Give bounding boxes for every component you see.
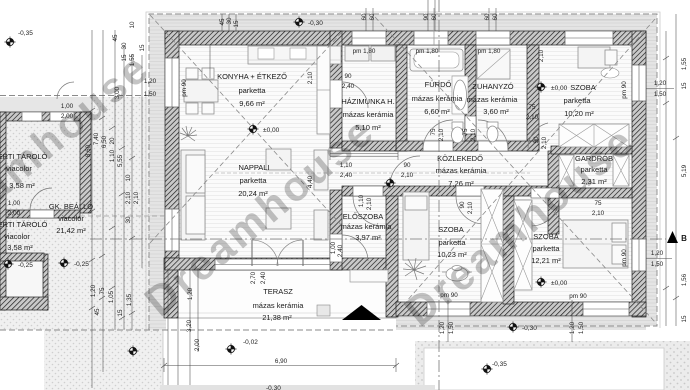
svg-text:3,20: 3,20 [186, 319, 193, 332]
left band [149, 14, 166, 330]
svg-text:10: 10 [125, 174, 132, 182]
svg-text:pm 90: pm 90 [621, 249, 628, 267]
wardrobe gardrób left [559, 155, 574, 186]
svg-text:2,40: 2,40 [337, 244, 344, 257]
svg-text:SZOBA: SZOBA [438, 225, 463, 234]
roof outline dashed [149, 14, 657, 330]
svg-text:2,40: 2,40 [342, 83, 355, 90]
svg-text:75: 75 [462, 128, 469, 136]
marker ±0,00 konyha [248, 124, 259, 135]
svg-text:12,21 m²: 12,21 m² [531, 256, 561, 265]
marker -0,25 annex left [3, 259, 14, 270]
házimunka machines [345, 46, 369, 61]
door szoba-bl gap [456, 186, 484, 196]
svg-text:6,60 m²: 6,60 m² [424, 107, 450, 116]
svg-text:60: 60 [492, 13, 499, 21]
svg-text:1,10: 1,10 [109, 149, 116, 162]
svg-text:1,00: 1,00 [330, 241, 337, 254]
lamp szoba-tr [601, 68, 619, 78]
svg-text:15: 15 [681, 315, 688, 323]
wardrobe szoba-tr [559, 124, 629, 147]
bathtub [410, 49, 463, 71]
svg-text:mázas kerámia: mázas kerámia [467, 95, 519, 104]
door szoba-br arc [531, 198, 559, 226]
marker dim strip bottom [128, 346, 139, 357]
door fürdő-zuhanyzó wall gap [465, 116, 476, 134]
wall corridor north [396, 141, 539, 151]
svg-text:KÖZLEKEDŐ: KÖZLEKEDŐ [437, 154, 483, 163]
svg-text:1,20: 1,20 [654, 80, 667, 87]
svg-text:1,50: 1,50 [654, 91, 667, 98]
wall left [165, 31, 179, 268]
svg-text:10,20 m²: 10,20 m² [564, 109, 594, 118]
svg-text:6,90: 6,90 [275, 358, 288, 365]
wall corridor south [342, 186, 548, 196]
marker előszoba [385, 178, 396, 189]
bed szoba-tr [578, 47, 610, 68]
svg-text:mázas kerámia: mázas kerámia [436, 166, 488, 175]
svg-text:7,40: 7,40 [93, 132, 100, 145]
door fürdő gap [423, 141, 453, 151]
solid thin line at section top [433, 8, 435, 45]
wall right [632, 31, 646, 317]
wardrobe between bottom szobas [481, 189, 503, 302]
svg-text:21,38 m²: 21,38 m² [262, 313, 292, 322]
svg-text:60: 60 [431, 13, 438, 21]
svg-text:1,20: 1,20 [651, 250, 664, 257]
svg-text:±0,00: ±0,00 [551, 85, 568, 92]
svg-text:15: 15 [139, 44, 146, 52]
svg-text:viacolor: viacolor [58, 214, 84, 223]
svg-text:2,10: 2,10 [526, 114, 539, 121]
tv bench [314, 150, 328, 190]
bed szoba-bl [403, 192, 429, 260]
svg-text:90: 90 [533, 136, 540, 144]
wall gardrób north [551, 146, 632, 154]
svg-text:2,10: 2,10 [592, 210, 605, 217]
top dim lines over windows [365, 8, 367, 31]
washbasin fürdő [452, 76, 468, 114]
svg-text:-0,25: -0,25 [74, 261, 89, 268]
door fürdő arc [423, 120, 453, 150]
wall szoba-bl west [386, 186, 398, 317]
annex lower box right wall [43, 254, 48, 310]
window left wall lower [165, 209, 179, 251]
svg-text:pm 90: pm 90 [181, 79, 188, 97]
svg-text:GK. BEÁLLÓ: GK. BEÁLLÓ [49, 202, 93, 211]
window bottom szoba-bl [427, 302, 470, 316]
window top házimunka [352, 31, 386, 45]
door passage-közlekedő arc [390, 156, 420, 186]
svg-text:2,10: 2,10 [133, 191, 140, 204]
svg-text:pm 1,80: pm 1,80 [416, 48, 439, 55]
window top zuhanyzó [476, 31, 510, 45]
svg-text:75: 75 [528, 104, 536, 111]
wall gardrób west [548, 151, 559, 234]
door előszoba arc [353, 196, 383, 226]
svg-text:30: 30 [226, 17, 233, 25]
svg-text:pm 1,80: pm 1,80 [478, 48, 501, 55]
annex lower mid wall [0, 253, 44, 261]
svg-text:-0,02: -0,02 [243, 339, 258, 346]
annex mid wall door gap [30, 210, 54, 218]
wall partition fürdő west [396, 45, 407, 151]
svg-text:parketta: parketta [238, 86, 266, 95]
wall terrace west [164, 258, 178, 318]
terrace small table [317, 305, 330, 316]
svg-text:±0,00: ±0,00 [551, 280, 568, 287]
window right wall upper [632, 65, 646, 101]
window left wall upper [165, 58, 179, 107]
window bottom szoba-br [583, 302, 629, 316]
terrace door posts [251, 240, 253, 266]
door zuhanyzó arc [478, 120, 508, 150]
roof dashed bottom-left [0, 329, 396, 331]
terrace glazing band [215, 259, 330, 270]
bottom dim line terrace [164, 365, 396, 367]
annex right wall [80, 112, 91, 213]
svg-text:45: 45 [112, 34, 119, 42]
svg-text:FÜRDŐ: FÜRDŐ [425, 80, 452, 89]
svg-text:21,42 m²: 21,42 m² [56, 226, 86, 235]
svg-text:45: 45 [219, 18, 226, 26]
svg-text:3,58 m²: 3,58 m² [7, 243, 33, 252]
right dim column [665, 31, 667, 326]
svg-text:-0,30: -0,30 [308, 20, 323, 27]
lamp pot szoba-bl [442, 266, 472, 282]
small strip left of house bottom [0, 310, 46, 330]
svg-text:2,00: 2,00 [8, 210, 21, 217]
svg-text:1,56: 1,56 [681, 273, 688, 286]
bottom gray strip [160, 385, 435, 390]
svg-text:20: 20 [109, 137, 116, 145]
svg-text:1,50: 1,50 [578, 321, 585, 334]
svg-text:1,50: 1,50 [448, 321, 455, 334]
kitchen counter [248, 46, 341, 64]
wall partition zuhanyzó west [465, 45, 476, 151]
terrace slab [178, 268, 396, 318]
svg-text:-0,35: -0,35 [492, 361, 507, 368]
marker ±0,00 szoba-br [536, 277, 547, 288]
bottom-left dim lines [167, 268, 169, 390]
window top szoba-tr [565, 31, 613, 45]
svg-text:2,70: 2,70 [250, 271, 257, 284]
svg-text:90: 90 [423, 13, 430, 21]
svg-text:9,66 m²: 9,66 m² [239, 99, 265, 108]
svg-text:2,10: 2,10 [541, 136, 548, 149]
svg-text:ZUHANYZÓ: ZUHANYZÓ [472, 82, 513, 91]
svg-text:mázas kerámia: mázas kerámia [253, 301, 305, 310]
svg-text:90: 90 [344, 73, 352, 80]
lower storage surround [44, 262, 163, 390]
svg-text:KONYHA + ÉTKEZŐ: KONYHA + ÉTKEZŐ [217, 72, 287, 81]
svg-text:1,20: 1,20 [90, 284, 97, 297]
door szoba-bl arc [456, 196, 484, 224]
door előszoba gap [353, 186, 383, 196]
dining table [184, 80, 218, 102]
wardrobe szoba-br east [514, 200, 532, 290]
wall bottom right wing [396, 302, 646, 316]
wall top [165, 31, 646, 45]
svg-text:1,10: 1,10 [358, 194, 365, 207]
svg-text:30: 30 [125, 216, 132, 224]
svg-text:pm 1,80: pm 1,80 [353, 48, 376, 55]
wardrobe gardrób right [613, 155, 629, 186]
svg-text:2,00: 2,00 [194, 338, 201, 351]
left dim ticks [89, 108, 135, 320]
shower tray [477, 49, 510, 79]
svg-text:2,40: 2,40 [260, 271, 267, 284]
svg-text:-0,25: -0,25 [18, 262, 33, 269]
marker -0,30 bottom right wing [508, 322, 519, 333]
marker -0,25 annex right [59, 258, 70, 269]
svg-text:60: 60 [369, 13, 376, 21]
section line B horizontal [90, 238, 666, 240]
wall partition P1 upper [330, 31, 342, 148]
svg-text:TERASZ: TERASZ [263, 287, 293, 296]
hip diagonal left block 2 [150, 32, 342, 243]
passage balustrade nappali-közlekedő [330, 150, 398, 160]
svg-text:3,60 m²: 3,60 m² [483, 107, 509, 116]
svg-text:3,97 m²: 3,97 m² [355, 233, 381, 242]
hip diagonal right block 1 [375, 17, 655, 322]
wall házimunka south [342, 141, 396, 151]
svg-text:±0,00: ±0,00 [263, 127, 280, 134]
svg-text:2,10: 2,10 [125, 191, 132, 204]
marker -0,30 top [294, 17, 305, 28]
svg-text:2,10: 2,10 [438, 128, 445, 141]
svg-text:5,19: 5,19 [681, 164, 688, 177]
right band [646, 14, 657, 326]
svg-text:75: 75 [594, 200, 602, 207]
door szoba-tr arc [528, 123, 548, 148]
svg-text:75: 75 [99, 287, 106, 295]
svg-text:90: 90 [459, 201, 466, 209]
annex top wall [0, 112, 91, 121]
annex mid wall [0, 210, 80, 218]
section line A vertical [438, 0, 440, 390]
svg-text:KERTI TÁROLÓ: KERTI TÁROLÓ [0, 220, 48, 229]
top band [149, 14, 657, 32]
hip diagonal right block 2 [398, 19, 655, 311]
marker -0,35 top left [5, 37, 16, 48]
svg-text:1,50: 1,50 [651, 261, 664, 268]
lower storage interior [5, 255, 44, 298]
svg-text:viacolor: viacolor [4, 232, 30, 241]
window top fürdő [414, 31, 448, 45]
svg-text:HÁZIMUNKA H.: HÁZIMUNKA H. [341, 97, 394, 106]
svg-text:-0,30: -0,30 [522, 325, 537, 332]
wall south left wing [165, 258, 396, 270]
svg-text:parketta: parketta [563, 96, 591, 105]
svg-text:B: B [681, 234, 687, 243]
coffee table [266, 208, 291, 229]
door házimunka arc [342, 82, 368, 108]
svg-text:7,26 m²: 7,26 m² [448, 179, 474, 188]
svg-text:8,60: 8,60 [85, 144, 92, 157]
roof inner line top [155, 19, 651, 21]
svg-text:SZOBA: SZOBA [570, 83, 595, 92]
svg-text:1,35: 1,35 [126, 293, 133, 306]
marker ±0,00 szoba-tr [536, 82, 547, 93]
nappali east cabinet [314, 210, 328, 240]
svg-text:15: 15 [681, 82, 688, 90]
svg-text:pm 90: pm 90 [621, 81, 628, 99]
svg-text:2,10: 2,10 [470, 128, 477, 141]
svg-text:2,10: 2,10 [401, 172, 414, 179]
front door arc [342, 235, 368, 261]
wall gardrób south [548, 188, 632, 198]
svg-text:5,55: 5,55 [117, 154, 124, 167]
annex top wall window [22, 112, 42, 121]
svg-text:45: 45 [94, 308, 101, 316]
svg-text:2,10: 2,10 [538, 49, 545, 62]
door házimunka gap [330, 80, 342, 108]
driveway / viacolor left area [0, 97, 166, 269]
bottom band under right wing [396, 317, 646, 330]
svg-text:-0,30: -0,30 [266, 385, 281, 390]
svg-text:60: 60 [484, 13, 491, 21]
armchair [266, 149, 291, 170]
toilet fürdő [452, 122, 464, 143]
svg-text:10: 10 [129, 21, 136, 29]
svg-text:-0,35: -0,35 [18, 30, 33, 37]
strip above annex [0, 183, 90, 213]
left dim column lines [91, 30, 93, 388]
svg-text:75: 75 [430, 128, 437, 136]
section B triangle [667, 231, 678, 243]
annex lower box bottom wall [0, 297, 48, 310]
toilet zuhanyzó [487, 122, 498, 142]
terrace door arc right [277, 240, 303, 266]
sofa [181, 150, 205, 240]
svg-text:15: 15 [117, 309, 124, 317]
svg-text:1,05: 1,05 [108, 290, 115, 303]
driveway front dashed line [80, 215, 165, 217]
hip diagonal left block 1 [150, 15, 344, 228]
annex left wall [0, 112, 6, 310]
dim dashed line y173 [215, 172, 530, 174]
marker bottom right [482, 364, 493, 375]
svg-text:6,50: 6,50 [101, 135, 108, 148]
entrance step [350, 270, 388, 282]
svg-text:1,20: 1,20 [439, 321, 446, 334]
roof outer thin frame [146, 12, 660, 332]
svg-text:1,50: 1,50 [144, 91, 157, 98]
bed szoba-br [563, 220, 628, 268]
svg-text:2,10: 2,10 [307, 71, 314, 84]
annex gate gap [50, 112, 74, 121]
svg-text:NAPPALI: NAPPALI [238, 163, 269, 172]
house interior floor [179, 45, 632, 302]
entrance triangle [342, 305, 381, 320]
door zuhanyzó gap [478, 141, 508, 151]
svg-text:ELŐSZOBA: ELŐSZOBA [343, 212, 383, 221]
top-left mini dim lines [221, 14, 223, 31]
svg-text:1,55: 1,55 [681, 57, 688, 70]
terrace door arc left [252, 240, 278, 266]
marker -0,02 terasz bottom [226, 344, 237, 355]
window right wall lower [632, 239, 646, 271]
front door gap [330, 234, 342, 262]
svg-text:mázas kerámia: mázas kerámia [412, 94, 464, 103]
wall partition P1 lower [330, 190, 342, 270]
svg-text:90: 90 [403, 162, 411, 169]
wall between bottom szobas [503, 196, 514, 304]
annex gate arc [57, 82, 74, 99]
svg-text:60: 60 [361, 13, 368, 21]
svg-text:2,10: 2,10 [467, 201, 474, 214]
plant nappali [180, 126, 197, 141]
konyha niche shelf [317, 46, 330, 134]
wall partition szoba-tr west [527, 45, 539, 151]
svg-text:2,10: 2,10 [366, 197, 373, 210]
svg-text:parketta: parketta [532, 244, 560, 253]
svg-text:mázas kerámia: mázas kerámia [341, 222, 393, 231]
plant szoba-bl [403, 258, 426, 280]
bottom right pavement [415, 341, 690, 390]
door szoba-br gap [531, 188, 559, 198]
svg-text:1,20: 1,20 [569, 321, 576, 334]
svg-text:pm 90: pm 90 [569, 293, 587, 300]
svg-text:15: 15 [233, 20, 240, 28]
